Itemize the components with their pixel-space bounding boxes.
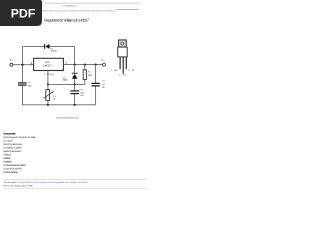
svg-text:www.1000circuits.com/proyectos: www.1000circuits.com/proyectos/regulador… xyxy=(19,181,89,184)
wire: P1 bottom lead xyxy=(47,100,49,104)
svg-text:www.1000circuits.com: www.1000circuits.com xyxy=(63,5,78,8)
resistor R1 xyxy=(83,70,86,80)
svg-text:Articulo original :: Articulo original : xyxy=(3,181,18,184)
TO-220 mounting hole xyxy=(121,42,124,45)
svg-text:10V: 10V xyxy=(80,94,84,97)
node: C3 top junction xyxy=(95,64,97,66)
diode D2 xyxy=(72,73,78,79)
wire: input branch vertical xyxy=(22,47,24,83)
node: D2 top junction xyxy=(74,64,76,66)
svg-text:3 - IN: 3 - IN xyxy=(128,69,134,72)
TO-220 leg 2 xyxy=(123,57,124,74)
wire: top rail left segment xyxy=(23,46,45,48)
svg-text:10uF: 10uF xyxy=(80,91,85,94)
node: ADJ junction xyxy=(47,83,49,85)
node: pot ground junction xyxy=(47,104,49,106)
transistor package LM317 TO-220 tab xyxy=(119,40,127,47)
page background xyxy=(0,0,149,198)
svg-text:LM317: LM317 xyxy=(43,64,52,68)
PDF badge xyxy=(0,0,42,26)
potentiometer P1 xyxy=(44,90,54,101)
wire: pin1 to ADJ rail xyxy=(47,71,49,90)
wire: D2 branch xyxy=(74,65,76,85)
node: C2 ground junction xyxy=(74,104,76,106)
wire: top rail right segment xyxy=(49,46,74,48)
capacitor C3 xyxy=(92,83,100,87)
components list xyxy=(3,136,36,174)
wire: input branch below C1 xyxy=(23,86,49,105)
svg-text:Regulador de Voltaje con LM317: Regulador de Voltaje con LM317 xyxy=(44,17,90,22)
node: R1 top junction xyxy=(84,64,86,66)
node: D2 bottom junction xyxy=(74,83,76,85)
wire: output rail xyxy=(64,64,103,66)
TO-220 leg 1 xyxy=(120,57,121,69)
op: IC1 LM317 box xyxy=(34,58,64,70)
diode D1 xyxy=(44,44,49,49)
svg-text:www.1000circuits.com: www.1000circuits.com xyxy=(56,117,79,120)
wire: Vi to pin 3 xyxy=(13,64,34,66)
wire: C2 branch xyxy=(74,84,76,104)
svg-text:50V: 50V xyxy=(102,86,106,89)
capacitor C1 xyxy=(18,82,27,85)
TO-220 leg 3 xyxy=(126,57,127,69)
header rule xyxy=(45,2,141,5)
svg-text:1N4001: 1N4001 xyxy=(62,79,68,82)
footer bottom rule xyxy=(3,187,148,190)
footer top rule xyxy=(3,178,148,181)
wire: ADJ rail xyxy=(48,83,85,85)
svg-text:240R: 240R xyxy=(88,74,93,77)
svg-text:Condensador: Poliester: Condensador: Poliester xyxy=(3,171,18,174)
svg-text:venta electronica: mas circuit: venta electronica: mas circuitos y pract… xyxy=(42,9,116,12)
wire: ground rail xyxy=(48,104,96,106)
wire: top rail drop to output xyxy=(74,47,76,65)
node: input junction xyxy=(21,64,23,66)
svg-text:1 - ADJ: 1 - ADJ xyxy=(111,69,118,72)
svg-text:1N4001: 1N4001 xyxy=(51,50,58,53)
terminal Vo xyxy=(103,63,106,66)
svg-text:PDF es este creado el 28-ene-2: PDF es este creado el 28-ene-2020 xyxy=(3,185,33,188)
wire: R1 bottom lead xyxy=(84,79,86,84)
wire: C3 branch xyxy=(95,65,97,105)
svg-text:1 (Adj): 1 (Adj) xyxy=(44,73,54,76)
header right grey segment xyxy=(116,8,140,11)
terminal Vi xyxy=(10,63,13,66)
svg-text:2 - OUT: 2 - OUT xyxy=(119,74,127,77)
capacitor C2 xyxy=(70,90,79,94)
svg-text:3: 3 xyxy=(30,62,32,66)
svg-text:PDF: PDF xyxy=(11,7,36,21)
TO-220 body xyxy=(118,47,128,57)
wire: R1 top lead xyxy=(84,65,86,70)
